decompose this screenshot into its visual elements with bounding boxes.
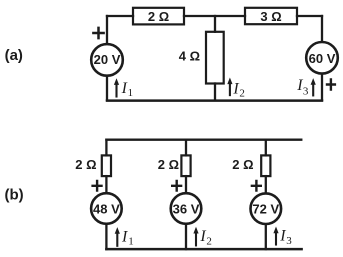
current arrow I1 (b) <box>115 227 134 247</box>
polarity + of 72 V source <box>252 181 261 191</box>
svg-text:(a): (a) <box>5 47 23 64</box>
wire below 60 V source <box>321 75 323 100</box>
svg-text:60 V: 60 V <box>309 51 336 66</box>
wire branch2 lower (b) <box>185 225 187 249</box>
current arrow I1 (a) <box>114 78 133 99</box>
svg-text:1: 1 <box>128 235 134 247</box>
current arrow I2 (b) <box>193 227 212 248</box>
voltage source 36 V <box>171 193 202 224</box>
wire branch1 upper (b) <box>105 140 107 156</box>
resistor 2 ohm (a) <box>133 8 184 25</box>
svg-text:2 Ω: 2 Ω <box>158 157 179 172</box>
svg-text:I: I <box>121 80 128 97</box>
wire branch3 middle (b) <box>265 176 267 192</box>
svg-text:72 V: 72 V <box>252 202 279 217</box>
voltage source 60 V <box>306 42 338 74</box>
wire top right stub (a) <box>297 15 322 17</box>
wire branch2 upper (b) <box>185 140 187 156</box>
voltage source 48 V <box>91 193 122 224</box>
svg-text:48 V: 48 V <box>93 201 120 216</box>
polarity + of 36 V source <box>172 181 181 191</box>
wire branch3 upper (b) <box>265 140 267 156</box>
wire top-left vertical (a) <box>106 16 108 43</box>
svg-text:(b): (b) <box>5 186 24 203</box>
label (a) <box>5 47 23 64</box>
current arrow I3 (b) <box>273 227 292 247</box>
node junction top middle (a) <box>214 16 216 32</box>
wire bottom (a) <box>107 99 322 102</box>
svg-text:I: I <box>199 228 206 245</box>
resistor 4 ohm (a) <box>179 32 224 84</box>
svg-text:3 Ω: 3 Ω <box>260 9 281 24</box>
wire below 20 V source <box>106 77 108 100</box>
svg-text:4 Ω: 4 Ω <box>179 49 200 64</box>
current arrow I2 (a) <box>227 78 245 100</box>
resistor 2 ohm branch3 (b) <box>232 155 270 176</box>
resistor 3 ohm (a) <box>245 8 297 24</box>
wire below 4 ohm resistor <box>214 84 216 100</box>
svg-text:20 V: 20 V <box>94 52 121 67</box>
wire top middle (a) <box>184 15 245 17</box>
svg-text:2 Ω: 2 Ω <box>75 157 96 172</box>
wire branch1 lower (b) <box>105 225 107 249</box>
svg-text:3: 3 <box>303 85 309 97</box>
svg-text:2 Ω: 2 Ω <box>232 157 253 172</box>
voltage source 72 V <box>250 193 281 224</box>
wire top (b) <box>106 139 301 141</box>
voltage source 20 V <box>91 44 123 76</box>
svg-text:1: 1 <box>128 87 134 99</box>
svg-text:3: 3 <box>286 235 292 247</box>
svg-text:I: I <box>279 228 286 245</box>
resistor 2 ohm branch2 (b) <box>158 155 191 176</box>
wire branch2 middle (b) <box>185 176 187 192</box>
polarity + of 20 V source <box>93 28 103 38</box>
wire top (a) left stub <box>107 15 133 17</box>
svg-text:2 Ω: 2 Ω <box>148 9 169 24</box>
resistor 2 ohm branch1 (b) <box>75 155 111 176</box>
wire branch1 middle (b) <box>105 176 107 192</box>
polarity + of 60 V source <box>327 80 335 90</box>
svg-text:I: I <box>121 229 128 246</box>
wire right vertical upper (a) <box>321 16 323 41</box>
svg-text:36 V: 36 V <box>173 201 200 216</box>
svg-text:2: 2 <box>239 87 245 99</box>
current arrow I3 (a) <box>296 77 316 97</box>
wire branch3 lower (b) <box>265 225 267 249</box>
svg-text:2: 2 <box>206 235 212 247</box>
svg-text:I: I <box>232 81 239 98</box>
label (b) <box>5 186 24 203</box>
wire bottom (b) <box>106 248 301 251</box>
polarity + of 48 V source <box>93 181 102 191</box>
